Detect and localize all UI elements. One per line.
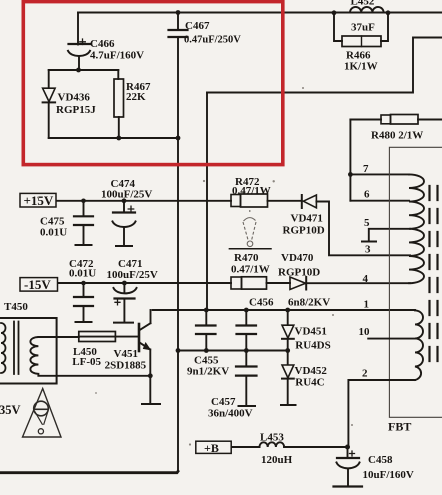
node railB x178 — [176, 348, 181, 353]
resistor R480 — [350, 115, 442, 125]
svg-text:0.47uF/250V: 0.47uF/250V — [184, 35, 241, 46]
scan specks — [37, 87, 353, 446]
svg-text:3: 3 — [365, 244, 371, 256]
svg-text:100uF/25V: 100uF/25V — [101, 189, 152, 201]
capacitor C475 — [74, 201, 93, 245]
svg-text:VD436: VD436 — [58, 92, 91, 104]
svg-text:R470: R470 — [234, 252, 259, 264]
capacitor C472 — [74, 283, 93, 322]
svg-text:RGP10D: RGP10D — [283, 225, 325, 237]
highlight box red — [23, 2, 283, 165]
T450 primary winding — [1, 323, 6, 373]
svg-text:22K: 22K — [126, 91, 146, 103]
FBT box — [389, 147, 442, 417]
svg-text:C457: C457 — [211, 396, 236, 408]
svg-text:VD471: VD471 — [291, 213, 323, 225]
wire node to branches — [49, 69, 119, 71]
diode VD471 — [302, 195, 410, 255]
capacitor C458 — [334, 447, 363, 487]
node C467 bottom — [176, 136, 181, 141]
node pin7 — [348, 172, 353, 177]
node C467 top — [176, 10, 181, 15]
label boxes — [20, 193, 231, 453]
capacitor C467 — [169, 13, 188, 472]
wire pin 6 — [350, 200, 409, 202]
wire pin 7 — [350, 173, 409, 175]
terminal +15V — [20, 193, 56, 207]
wire L453 to C458 — [284, 446, 347, 448]
capacitor C456 — [237, 310, 257, 351]
inductor L450 — [79, 332, 138, 342]
svg-text:VD470: VD470 — [281, 252, 314, 264]
node C458 — [345, 445, 350, 450]
svg-text:2SD1885: 2SD1885 — [105, 360, 147, 372]
node R467 bottom — [116, 136, 121, 141]
node L452 right — [386, 10, 391, 15]
svg-text:C467: C467 — [185, 20, 210, 32]
svg-text:+B: +B — [204, 441, 219, 455]
svg-text:4.7uF/160V: 4.7uF/160V — [90, 50, 144, 62]
node emitter rail — [148, 373, 153, 378]
svg-text:0.01U: 0.01U — [40, 227, 67, 239]
wire pin 5 and bar — [369, 229, 410, 242]
capacitor C474 — [113, 201, 136, 246]
wire rail B — [178, 350, 288, 352]
wire top rail — [78, 12, 442, 14]
svg-text:VD452: VD452 — [295, 365, 328, 377]
FBT lower winding — [415, 310, 423, 380]
svg-text:C458: C458 — [368, 454, 393, 466]
svg-text:0.01U: 0.01U — [69, 268, 96, 280]
capacitor C471 — [114, 283, 137, 323]
wire bottom of snubber — [49, 137, 178, 139]
wire secondary bottom rail — [38, 375, 150, 377]
svg-text:LF-05: LF-05 — [72, 356, 101, 368]
diode VD452 — [281, 351, 296, 406]
rule above R470 — [229, 248, 271, 250]
node C475 top — [81, 199, 86, 204]
svg-text:RU4C: RU4C — [295, 376, 324, 388]
inductor L452 — [350, 7, 384, 13]
svg-text:C456: C456 — [249, 297, 274, 309]
svg-text:10: 10 — [359, 326, 371, 338]
svg-text:R480 2/1W: R480 2/1W — [371, 130, 423, 142]
transformer T450 box — [0, 318, 57, 384]
node rail C456 — [244, 308, 249, 313]
svg-text:L452: L452 — [351, 0, 375, 8]
svg-text:9n1/2KV: 9n1/2KV — [187, 366, 229, 378]
svg-text:4: 4 — [363, 273, 369, 285]
diode VD436 — [43, 70, 56, 138]
svg-text:-15V: -15V — [24, 277, 51, 292]
wire C466 riser — [77, 13, 79, 45]
resistor R466 — [334, 13, 388, 47]
svg-text:T450: T450 — [4, 301, 28, 313]
capacitor C466 — [68, 39, 90, 70]
FBT upper winding — [409, 174, 424, 283]
svg-text:10uF/160V: 10uF/160V — [363, 469, 414, 481]
FBT core — [430, 186, 438, 362]
svg-text:2: 2 — [362, 368, 368, 380]
capacitor C457 — [236, 351, 257, 407]
wire pin 10 stub — [368, 338, 415, 340]
svg-text:V451: V451 — [114, 348, 138, 360]
node L452 left — [332, 10, 337, 15]
svg-text:+15V: +15V — [24, 193, 54, 208]
svg-text:0.47/1W: 0.47/1W — [231, 264, 270, 276]
svg-text:L453: L453 — [260, 432, 284, 444]
capacitor C455 — [196, 310, 216, 351]
resistor R470 — [231, 277, 290, 289]
inductor L453 — [260, 442, 285, 447]
node C471 top — [122, 281, 127, 286]
terminal -15V — [20, 278, 58, 292]
svg-text:C466: C466 — [90, 38, 115, 50]
terminal +B — [196, 441, 231, 453]
svg-text:VD451: VD451 — [295, 326, 327, 338]
svg-text:0.47/1W: 0.47/1W — [232, 185, 271, 197]
wire +B to L453 — [231, 446, 259, 448]
wire -15V rail — [57, 282, 231, 284]
svg-text:1K/1W: 1K/1W — [344, 61, 378, 73]
wire R480 to pins — [349, 120, 351, 201]
svg-text:RGP10D: RGP10D — [278, 267, 320, 279]
svg-text:1: 1 — [364, 299, 370, 311]
svg-text:7: 7 — [363, 163, 369, 175]
wire vertical x207 — [206, 93, 208, 311]
T450 core — [14, 322, 19, 375]
svg-text:RGP15J: RGP15J — [56, 104, 96, 116]
wire +15V rail — [55, 200, 231, 202]
node C472 top — [81, 281, 86, 286]
diode VD470 — [290, 277, 410, 290]
svg-text:6n8/2KV: 6n8/2KV — [288, 297, 330, 309]
diode VD451 — [282, 310, 294, 351]
wire collector rail — [153, 309, 415, 311]
svg-text:35V: 35V — [0, 403, 21, 417]
node railB C455 — [204, 348, 209, 353]
wire fbt feed upper — [207, 38, 442, 93]
node railB C457 — [244, 348, 249, 353]
wire pin 2 — [348, 380, 415, 447]
adjust mark near R470 — [243, 209, 256, 247]
node under C466 — [76, 68, 81, 73]
svg-text:120uH: 120uH — [261, 454, 293, 466]
wire bottom return — [0, 471, 178, 472]
svg-text:6: 6 — [364, 189, 370, 201]
node rail x207 — [204, 308, 209, 313]
transistor V451 — [139, 310, 160, 404]
svg-text:100uF/25V: 100uF/25V — [107, 269, 158, 281]
svg-text:5: 5 — [364, 217, 370, 229]
node rail VD451 — [285, 308, 290, 313]
svg-text:36n/400V: 36n/400V — [208, 408, 253, 420]
svg-text:FBT: FBT — [388, 420, 411, 434]
wire secondary top to L450 — [38, 336, 78, 338]
node railB VD452 — [285, 348, 290, 353]
svg-text:37uF: 37uF — [351, 22, 375, 34]
resistor R472 — [231, 194, 302, 207]
resistor R467 — [114, 70, 124, 138]
svg-text:RU4DS: RU4DS — [295, 340, 330, 352]
node C474 top — [122, 198, 127, 203]
adjust mark 35V triangle — [23, 389, 62, 438]
T450 secondary winding — [30, 337, 38, 376]
